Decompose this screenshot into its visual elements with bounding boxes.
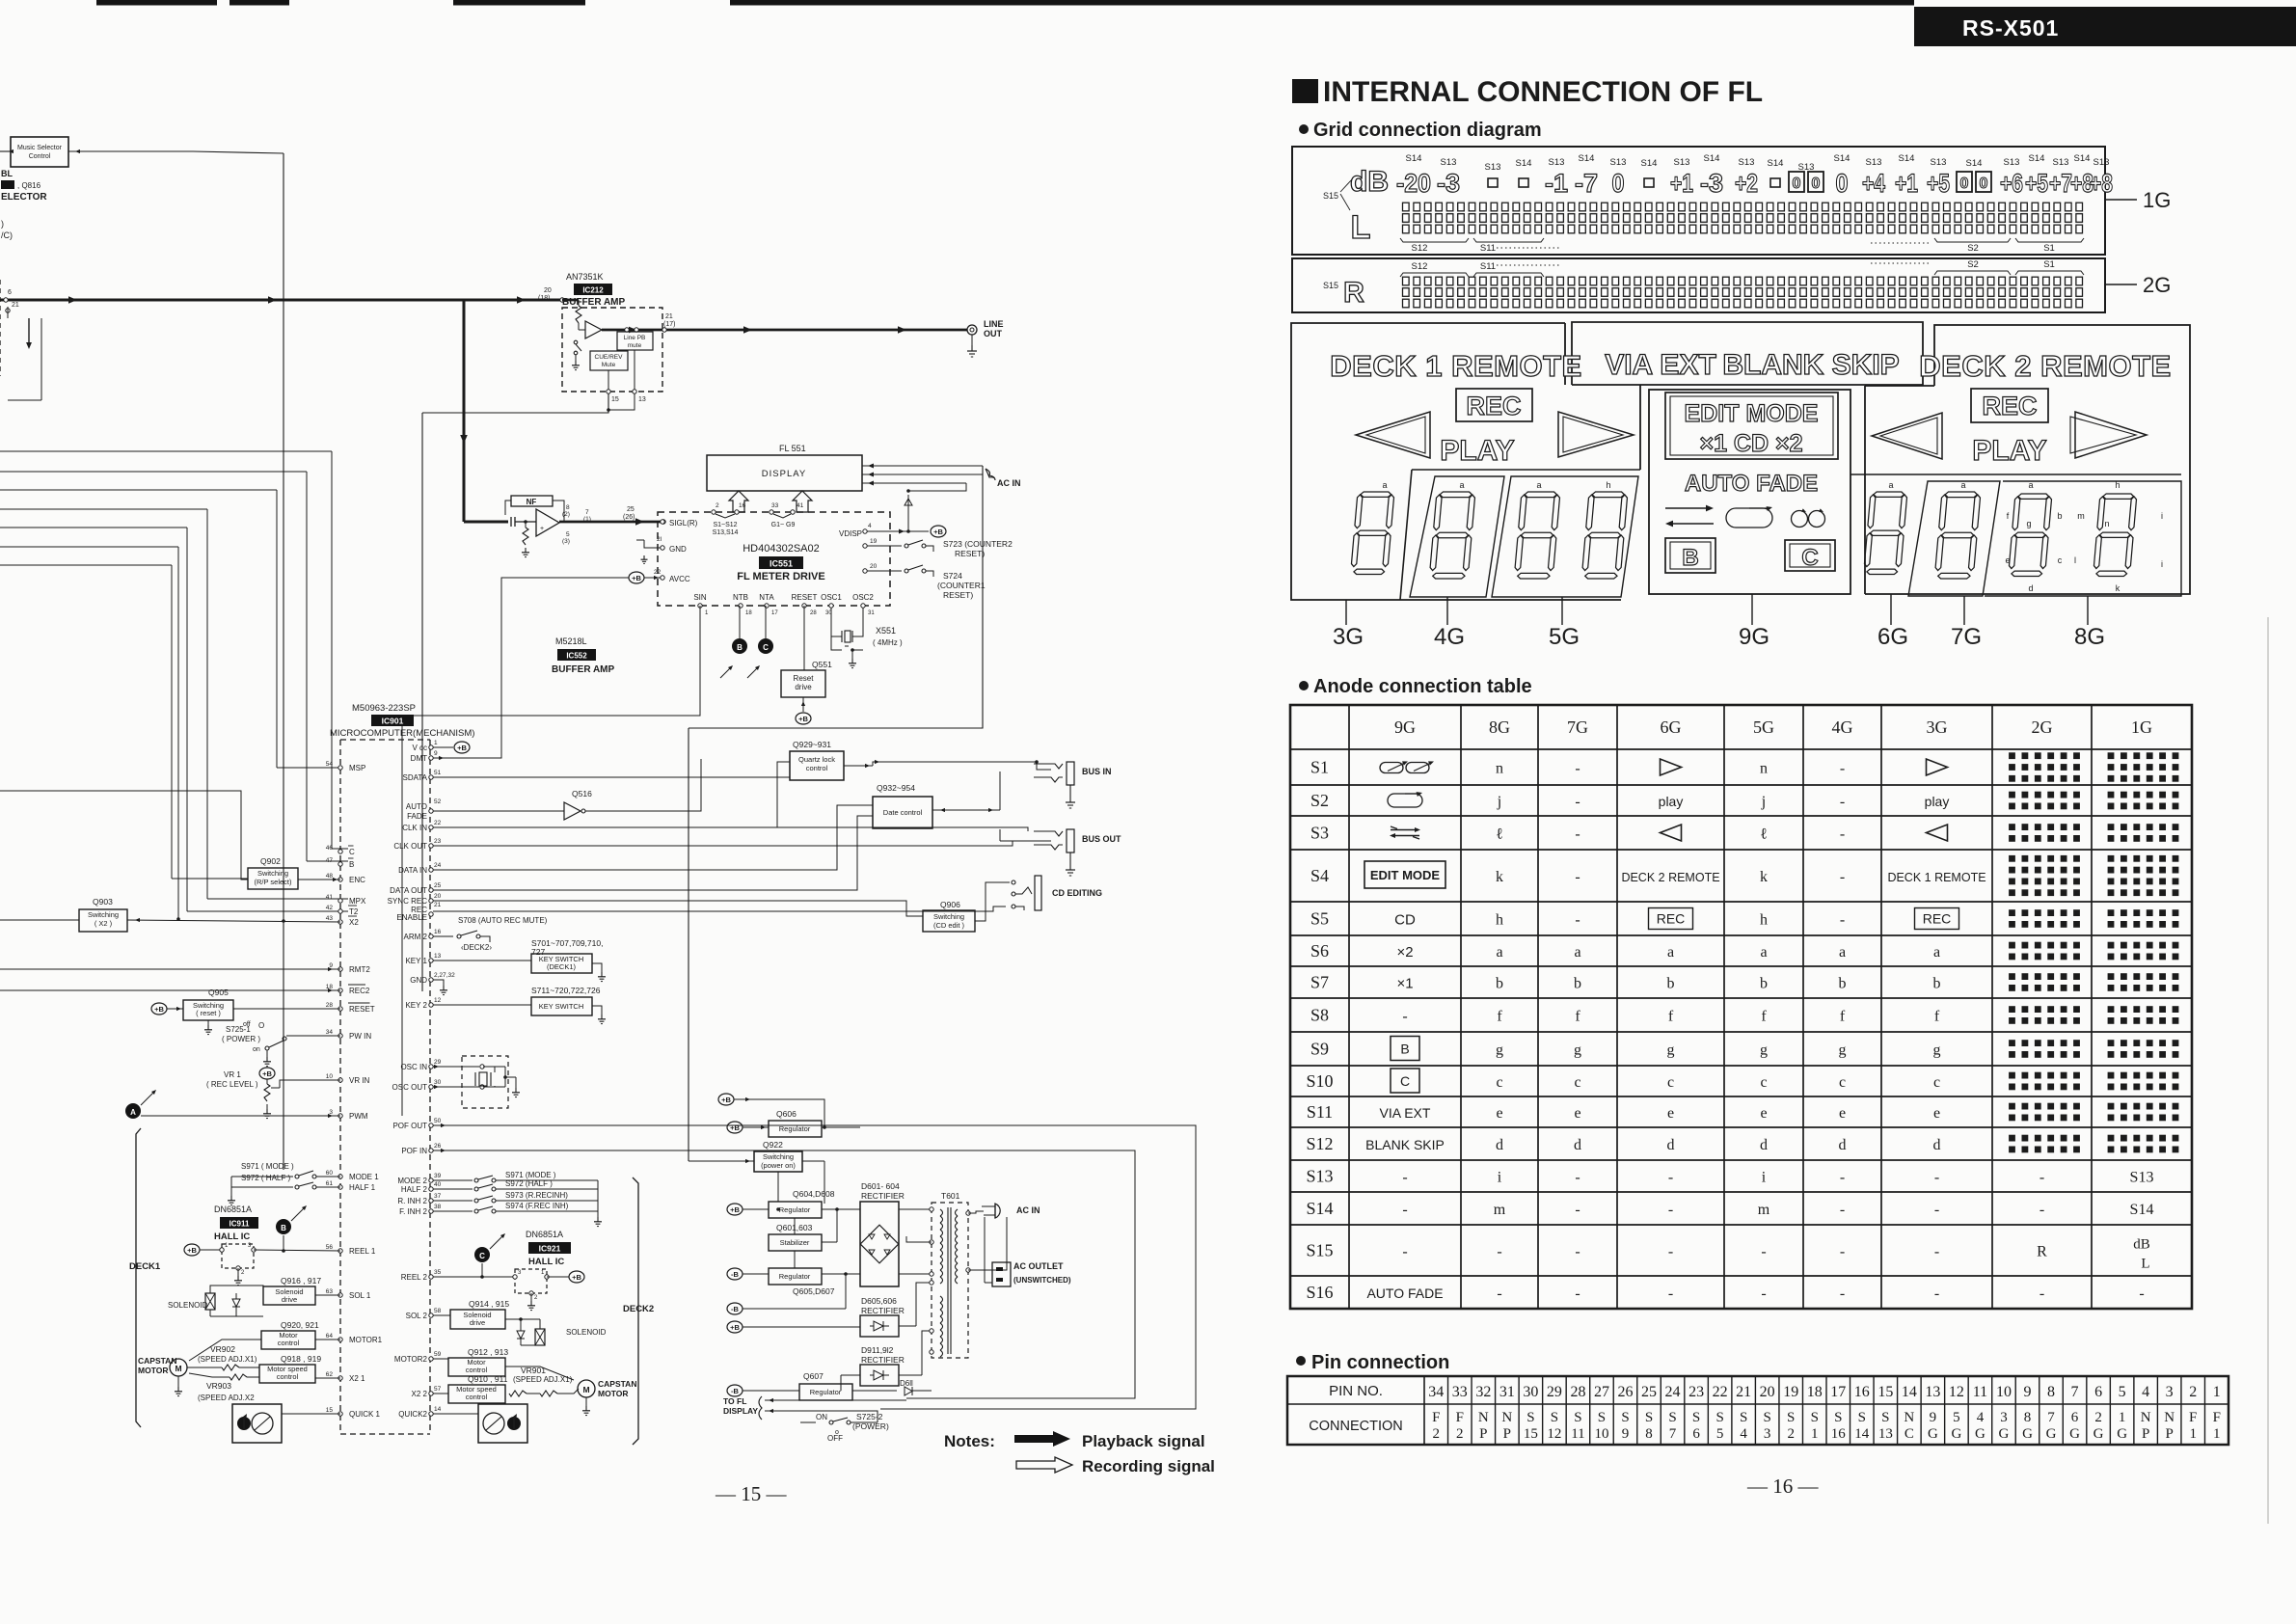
svg-text:34: 34 — [326, 1029, 334, 1036]
svg-text:2: 2 — [1456, 1426, 1464, 1442]
svg-text:S6: S6 — [1310, 941, 1329, 961]
svg-text:g: g — [1760, 1042, 1768, 1059]
svg-text:play: play — [1659, 794, 1684, 809]
svg-text:-: - — [1934, 1244, 1939, 1260]
svg-text:9G: 9G — [1739, 624, 1769, 650]
svg-text:3: 3 — [1764, 1426, 1771, 1442]
svg-text:AC IN: AC IN — [997, 478, 1021, 488]
svg-text:control: control — [277, 1372, 299, 1381]
svg-text:DECK 1 REMOTE: DECK 1 REMOTE — [1330, 349, 1581, 383]
svg-text:HALF 1: HALF 1 — [349, 1183, 376, 1192]
svg-text:S3: S3 — [1310, 824, 1329, 843]
svg-text:+B: +B — [457, 744, 467, 752]
svg-text:N: N — [1478, 1410, 1489, 1425]
svg-text:S14: S14 — [1579, 153, 1595, 164]
svg-text:-B: -B — [731, 1387, 739, 1395]
svg-text:S: S — [1621, 1410, 1629, 1425]
svg-text:0: 0 — [1836, 169, 1849, 198]
svg-text:S13: S13 — [1549, 157, 1565, 168]
svg-text:-7: -7 — [1575, 169, 1598, 198]
svg-text:DN6851A: DN6851A — [526, 1230, 563, 1239]
svg-text:B: B — [1682, 545, 1698, 571]
svg-text:Regulator: Regulator — [779, 1205, 811, 1214]
svg-text:Q516: Q516 — [572, 789, 592, 798]
svg-text:S14: S14 — [1834, 153, 1850, 164]
svg-text:S: S — [1834, 1410, 1842, 1425]
svg-text:Regulator: Regulator — [779, 1124, 811, 1133]
svg-text:Anode connection table: Anode connection table — [1313, 676, 1532, 697]
svg-text:M: M — [175, 1364, 181, 1373]
svg-text:DISPLAY: DISPLAY — [723, 1406, 758, 1416]
svg-text:S2: S2 — [1967, 259, 1979, 270]
svg-text:G: G — [2046, 1426, 2057, 1442]
svg-text:): ) — [1, 219, 4, 229]
svg-text:RESET): RESET) — [955, 549, 985, 558]
svg-text:S13: S13 — [2053, 157, 2069, 168]
svg-text:3G: 3G — [1927, 717, 1948, 737]
svg-text:60: 60 — [326, 1170, 334, 1177]
svg-text:17: 17 — [1830, 1384, 1846, 1400]
svg-text:D911,9l2: D911,9l2 — [861, 1345, 894, 1355]
svg-text:AUTO: AUTO — [406, 802, 427, 811]
svg-text:SOL 2: SOL 2 — [406, 1312, 428, 1320]
svg-text:64: 64 — [326, 1333, 334, 1340]
svg-text:S711~720,722,726: S711~720,722,726 — [531, 986, 601, 995]
svg-text:Q918 , 919: Q918 , 919 — [281, 1354, 321, 1364]
svg-text:+B: +B — [730, 1205, 740, 1214]
svg-text:-: - — [2039, 1286, 2044, 1302]
svg-text:L: L — [2141, 1257, 2149, 1272]
svg-text:P: P — [2166, 1426, 2174, 1442]
svg-text:-: - — [1840, 869, 1845, 885]
svg-text:N: N — [1904, 1410, 1914, 1425]
svg-text:f: f — [1668, 1009, 1674, 1025]
svg-text:L: L — [1351, 209, 1371, 246]
svg-text:G: G — [2069, 1426, 2080, 1442]
svg-text:ℓ: ℓ — [1496, 826, 1503, 843]
svg-text:23: 23 — [434, 838, 442, 845]
svg-text:KEY 1: KEY 1 — [405, 957, 427, 965]
svg-text:18: 18 — [1807, 1384, 1823, 1400]
svg-text:+B: +B — [187, 1246, 197, 1255]
svg-text:-3: -3 — [1437, 169, 1460, 198]
svg-text:20: 20 — [544, 287, 552, 294]
svg-text:Grid connection diagram: Grid connection diagram — [1313, 120, 1542, 141]
svg-text:X551: X551 — [876, 626, 896, 636]
svg-text:X2 1: X2 1 — [349, 1374, 365, 1383]
svg-text:S13: S13 — [2093, 157, 2110, 168]
svg-text:f: f — [1934, 1009, 1940, 1025]
svg-text:( X2 ): ( X2 ) — [95, 919, 113, 928]
svg-text:21: 21 — [12, 302, 19, 309]
svg-text:S: S — [1551, 1410, 1558, 1425]
svg-text:S971 ( MODE ): S971 ( MODE ) — [241, 1162, 294, 1171]
svg-text:IC552: IC552 — [566, 652, 587, 661]
svg-text:5G: 5G — [1549, 624, 1580, 650]
svg-text:Notes:: Notes: — [944, 1432, 995, 1450]
svg-text:MOTOR2: MOTOR2 — [394, 1355, 428, 1364]
svg-text:DECK 2 REMOTE: DECK 2 REMOTE — [1919, 349, 2171, 383]
svg-text:Q922: Q922 — [763, 1140, 783, 1150]
svg-text:mute: mute — [628, 342, 642, 349]
svg-text:d: d — [1496, 1137, 1503, 1153]
svg-text:(26): (26) — [623, 514, 635, 521]
svg-text:S5: S5 — [1310, 909, 1329, 929]
svg-text:T601: T601 — [941, 1191, 960, 1201]
svg-text:DECK1: DECK1 — [129, 1261, 161, 1272]
svg-text:+B: +B — [632, 574, 641, 582]
svg-text:(1): (1) — [583, 516, 591, 523]
svg-text:Stabilizer: Stabilizer — [780, 1238, 810, 1247]
svg-text:61: 61 — [326, 1180, 334, 1187]
svg-text:50: 50 — [434, 1118, 442, 1124]
svg-text:16: 16 — [1831, 1426, 1847, 1442]
svg-text:4: 4 — [1740, 1426, 1747, 1442]
svg-text:16: 16 — [434, 929, 442, 935]
svg-text:S972 (HALF ): S972 (HALF ) — [505, 1179, 553, 1188]
svg-text:+5: +5 — [1927, 169, 1950, 198]
svg-text:Q905: Q905 — [208, 988, 229, 997]
svg-text:-: - — [1575, 912, 1580, 929]
svg-text:IC551: IC551 — [770, 559, 793, 569]
svg-text:S11: S11 — [1480, 243, 1496, 254]
svg-text:AC IN: AC IN — [1016, 1205, 1040, 1215]
svg-text:62: 62 — [326, 1371, 334, 1378]
svg-text:KEY SWITCH: KEY SWITCH — [539, 1002, 584, 1011]
svg-text:-: - — [1840, 1244, 1845, 1260]
svg-text:10: 10 — [1996, 1384, 2012, 1400]
svg-text:S12: S12 — [1306, 1134, 1333, 1153]
svg-text:1: 1 — [434, 740, 438, 746]
svg-text:57: 57 — [434, 1386, 442, 1393]
svg-text:d: d — [1667, 1137, 1675, 1153]
svg-text:S8: S8 — [1310, 1006, 1329, 1025]
svg-text:S: S — [1811, 1410, 1819, 1425]
svg-text:-: - — [1840, 1286, 1845, 1302]
svg-text:-: - — [1402, 1244, 1407, 1260]
svg-text:-: - — [2039, 1170, 2044, 1186]
svg-text:OSC2: OSC2 — [852, 593, 874, 602]
svg-text:G1~ G9: G1~ G9 — [771, 522, 796, 528]
svg-text:f: f — [1575, 1009, 1580, 1025]
svg-text:IC911: IC911 — [230, 1220, 250, 1229]
svg-text:Q932~954: Q932~954 — [877, 783, 915, 793]
svg-text:+1: +1 — [1670, 169, 1693, 198]
svg-text:EDIT MODE: EDIT MODE — [1685, 400, 1819, 427]
svg-text:Q920, 921: Q920, 921 — [281, 1320, 319, 1330]
svg-text:2: 2 — [1787, 1426, 1795, 1442]
svg-text:AUTO FADE: AUTO FADE — [1685, 471, 1818, 497]
svg-text:S12: S12 — [1412, 243, 1428, 254]
svg-text:28: 28 — [1570, 1384, 1585, 1400]
svg-text:b: b — [1760, 976, 1768, 992]
svg-text:(power on): (power on) — [761, 1161, 796, 1170]
svg-text:8: 8 — [2047, 1384, 2055, 1400]
svg-text:( POWER ): ( POWER ) — [222, 1035, 260, 1043]
svg-text:g: g — [2026, 519, 2031, 528]
svg-text:+B: +B — [262, 1069, 272, 1078]
svg-text:2G: 2G — [2143, 273, 2171, 297]
svg-text:1G: 1G — [2143, 188, 2171, 212]
svg-text:QUICK 1: QUICK 1 — [349, 1410, 381, 1419]
svg-text:S: S — [1574, 1410, 1581, 1425]
svg-text:-: - — [1934, 1202, 1939, 1218]
svg-text:S14: S14 — [1516, 158, 1532, 169]
svg-text:SOLENOID: SOLENOID — [168, 1301, 208, 1310]
svg-text:Mute: Mute — [602, 362, 616, 368]
svg-text:S13: S13 — [1674, 157, 1690, 168]
svg-text:4: 4 — [2142, 1384, 2149, 1400]
svg-text:59: 59 — [434, 1351, 442, 1358]
svg-text:S13,S14: S13,S14 — [713, 529, 739, 536]
svg-text:control: control — [466, 1393, 488, 1401]
svg-text:DISPLAY: DISPLAY — [762, 469, 806, 479]
svg-text:GND: GND — [669, 545, 687, 554]
svg-text:C: C — [1801, 545, 1818, 571]
svg-text:f: f — [1497, 1009, 1502, 1025]
svg-text:×1 CD ×2: ×1 CD ×2 — [1699, 430, 1802, 457]
svg-text:RECTIFIER: RECTIFIER — [861, 1306, 905, 1315]
svg-text:HALF 2: HALF 2 — [401, 1185, 428, 1194]
svg-text:control: control — [278, 1339, 300, 1347]
svg-text:33: 33 — [771, 502, 779, 509]
svg-text:2G: 2G — [2032, 717, 2053, 737]
svg-text:S: S — [1764, 1410, 1771, 1425]
svg-text:NTB: NTB — [733, 593, 748, 602]
svg-text:d: d — [1933, 1137, 1941, 1153]
svg-text:S13: S13 — [1798, 162, 1815, 173]
svg-text:33: 33 — [1452, 1384, 1468, 1400]
svg-text:1: 1 — [225, 1243, 229, 1249]
svg-text:P: P — [2142, 1426, 2149, 1442]
svg-text:OSC OUT: OSC OUT — [392, 1083, 428, 1092]
svg-text:56: 56 — [326, 1244, 334, 1251]
svg-text:RECTIFIER: RECTIFIER — [861, 1355, 905, 1365]
svg-text:ENABLE: ENABLE — [396, 913, 427, 922]
svg-text:26: 26 — [434, 1143, 442, 1150]
svg-text:FADE: FADE — [407, 812, 427, 821]
svg-text:51: 51 — [434, 770, 442, 776]
svg-text:VIA EXT: VIA EXT — [1380, 1105, 1431, 1121]
svg-text:S10: S10 — [1306, 1071, 1333, 1091]
svg-text:Playback signal: Playback signal — [1082, 1432, 1205, 1450]
svg-text:VR903: VR903 — [206, 1381, 231, 1391]
svg-text:PWM: PWM — [349, 1112, 368, 1121]
svg-text:43: 43 — [326, 915, 334, 922]
svg-text:54: 54 — [326, 761, 334, 768]
svg-text:OSC1: OSC1 — [821, 593, 842, 602]
svg-text:46: 46 — [326, 845, 334, 852]
svg-text:4G: 4G — [1832, 717, 1853, 737]
svg-text:RESET): RESET) — [943, 590, 973, 600]
svg-text:S14: S14 — [1966, 158, 1983, 169]
svg-text:C: C — [1400, 1073, 1410, 1089]
svg-text:1G: 1G — [2131, 717, 2152, 737]
svg-text:c: c — [2058, 555, 2063, 565]
svg-text:S725-1: S725-1 — [226, 1025, 251, 1034]
svg-text:g: g — [1574, 1042, 1581, 1059]
svg-text:B: B — [1400, 1042, 1409, 1057]
svg-text:S4: S4 — [1310, 866, 1329, 885]
svg-text:26: 26 — [1618, 1384, 1634, 1400]
svg-text:R: R — [1343, 277, 1364, 309]
svg-text:CD: CD — [1394, 912, 1416, 929]
svg-text:-: - — [1934, 1286, 1939, 1302]
svg-text:Pin connection: Pin connection — [1311, 1352, 1449, 1373]
svg-text:AC OUTLET: AC OUTLET — [1013, 1261, 1064, 1271]
svg-text:19: 19 — [870, 538, 878, 545]
svg-text:S13: S13 — [1866, 157, 1882, 168]
svg-text:ELECTOR: ELECTOR — [1, 192, 47, 203]
svg-text:30: 30 — [434, 1079, 442, 1086]
svg-text:10: 10 — [326, 1073, 334, 1080]
svg-text:(18): (18) — [538, 295, 550, 302]
svg-text:c: c — [1667, 1074, 1674, 1091]
svg-text:HALL IC: HALL IC — [214, 1232, 250, 1242]
svg-text:SYNC REC: SYNC REC — [388, 897, 428, 906]
svg-text:58: 58 — [434, 1308, 442, 1314]
svg-text:9: 9 — [1930, 1410, 1937, 1425]
svg-text:d: d — [1760, 1137, 1768, 1153]
svg-text:D601- 604: D601- 604 — [861, 1181, 900, 1191]
svg-text:Q903: Q903 — [93, 897, 113, 907]
svg-text:CAPSTAN: CAPSTAN — [598, 1379, 636, 1389]
svg-text:a: a — [1574, 944, 1580, 961]
svg-text:37: 37 — [434, 1193, 442, 1200]
svg-text:Switching: Switching — [933, 912, 964, 921]
svg-text:RESET: RESET — [792, 593, 818, 602]
svg-text:-: - — [1840, 761, 1845, 777]
svg-text:BUS OUT: BUS OUT — [1082, 834, 1121, 844]
svg-text:OUT: OUT — [984, 329, 1003, 338]
svg-text:a: a — [1382, 480, 1387, 490]
svg-text:-: - — [1402, 1170, 1407, 1186]
svg-text:S: S — [1740, 1410, 1747, 1425]
svg-text:X2: X2 — [349, 918, 359, 927]
svg-text:1: 1 — [2213, 1384, 2221, 1400]
svg-text:27: 27 — [1594, 1384, 1609, 1400]
svg-text:-: - — [1575, 761, 1580, 777]
svg-text:B: B — [349, 860, 354, 869]
svg-text:-: - — [1668, 1170, 1673, 1186]
svg-text:11: 11 — [1973, 1384, 1987, 1400]
svg-text:Control: Control — [29, 153, 51, 160]
svg-text:42: 42 — [326, 905, 334, 911]
svg-text:b: b — [2057, 511, 2062, 521]
svg-text:8: 8 — [1645, 1426, 1653, 1442]
svg-text:+7: +7 — [2049, 169, 2072, 198]
svg-text:-: - — [1840, 1170, 1845, 1186]
svg-text:0: 0 — [1793, 176, 1801, 192]
svg-text:S: S — [1668, 1410, 1676, 1425]
svg-text:20: 20 — [870, 563, 878, 570]
svg-text:VR IN: VR IN — [349, 1076, 370, 1085]
svg-text:+B: +B — [730, 1123, 740, 1132]
svg-text:S14: S14 — [2029, 153, 2045, 164]
svg-text:17: 17 — [771, 610, 778, 616]
svg-text:e: e — [1839, 1105, 1846, 1122]
svg-text:Switching: Switching — [88, 910, 119, 919]
svg-text:IC901: IC901 — [382, 717, 404, 726]
svg-text:G: G — [1999, 1426, 2010, 1442]
svg-text:Q551: Q551 — [812, 660, 832, 669]
svg-text:-B: -B — [731, 1305, 739, 1313]
svg-text:3: 3 — [518, 1270, 522, 1276]
svg-text:D6ll: D6ll — [900, 1379, 913, 1388]
svg-text:CLK IN: CLK IN — [402, 824, 427, 832]
svg-text:b: b — [1667, 976, 1675, 992]
svg-text:b: b — [1574, 976, 1581, 992]
svg-text:-: - — [1840, 794, 1845, 810]
svg-text:dB: dB — [1350, 166, 1389, 198]
svg-text:16: 16 — [1854, 1384, 1870, 1400]
svg-text:15: 15 — [1524, 1426, 1538, 1442]
svg-text:Q606: Q606 — [776, 1109, 797, 1119]
svg-text:0: 0 — [1960, 176, 1969, 192]
svg-text:MOTOR: MOTOR — [138, 1366, 168, 1375]
svg-text:DN6851A: DN6851A — [214, 1204, 252, 1214]
svg-text:15: 15 — [611, 396, 619, 403]
svg-text:40: 40 — [434, 1181, 442, 1188]
svg-text:CD EDITING: CD EDITING — [1052, 888, 1102, 898]
svg-text:a: a — [1459, 480, 1464, 490]
svg-text:HALL IC: HALL IC — [528, 1257, 564, 1267]
svg-text:D605,606: D605,606 — [861, 1296, 897, 1306]
svg-text:PLAY: PLAY — [1972, 435, 2046, 467]
svg-text:24: 24 — [434, 862, 442, 869]
svg-text:R: R — [2037, 1244, 2047, 1260]
svg-text:S13: S13 — [2130, 1170, 2154, 1186]
svg-text:48: 48 — [326, 873, 334, 880]
svg-text:REC2: REC2 — [349, 987, 370, 995]
svg-text:+B: +B — [730, 1323, 740, 1332]
svg-text:63: 63 — [326, 1288, 334, 1295]
svg-text:DECK 2 REMOTE: DECK 2 REMOTE — [1621, 871, 1719, 884]
svg-text:14: 14 — [1902, 1384, 1917, 1400]
svg-text:REEL 1: REEL 1 — [349, 1247, 376, 1256]
svg-text:C: C — [763, 643, 769, 652]
svg-text:S14: S14 — [1641, 158, 1658, 169]
svg-text:S: S — [1526, 1410, 1534, 1425]
svg-text:Q910 , 911: Q910 , 911 — [468, 1374, 508, 1384]
svg-text:BLANK SKIP: BLANK SKIP — [1365, 1137, 1445, 1152]
svg-text:CLK OUT: CLK OUT — [393, 842, 427, 851]
svg-text:IC921: IC921 — [539, 1244, 561, 1254]
svg-text:IC212: IC212 — [582, 286, 604, 295]
svg-text:34: 34 — [1428, 1384, 1444, 1400]
svg-text:-: - — [1668, 1244, 1673, 1260]
svg-text:9: 9 — [1622, 1426, 1630, 1442]
svg-text:S: S — [1787, 1410, 1795, 1425]
svg-text:-: - — [1575, 869, 1580, 885]
svg-text:21: 21 — [434, 902, 442, 908]
svg-text:Recording signal: Recording signal — [1082, 1457, 1215, 1475]
svg-text:GND: GND — [410, 976, 427, 985]
svg-text:Reset: Reset — [794, 674, 815, 683]
svg-text:S15: S15 — [1306, 1241, 1333, 1260]
svg-text:7: 7 — [2047, 1410, 2055, 1425]
svg-text:(SPEED ADJ.X1): (SPEED ADJ.X1) — [198, 1355, 257, 1364]
svg-text:-: - — [1402, 1202, 1407, 1218]
svg-text:-20: -20 — [1396, 169, 1431, 198]
svg-text:F: F — [1456, 1410, 1464, 1425]
svg-text:9: 9 — [434, 750, 438, 757]
svg-text:35: 35 — [434, 1269, 442, 1276]
svg-text:3: 3 — [2166, 1384, 2174, 1400]
svg-text:21: 21 — [665, 313, 673, 320]
svg-text:S14: S14 — [1704, 153, 1720, 164]
svg-text:-: - — [1575, 826, 1580, 843]
